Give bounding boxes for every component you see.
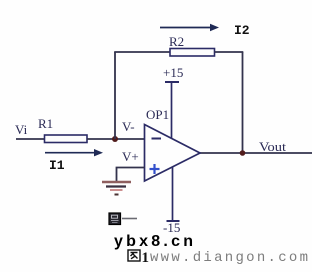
resistor R2 [170,49,215,57]
wire non-inverting input [117,168,145,182]
current arrow I2 [160,24,219,31]
svg-text:R2: R2 [169,34,184,49]
op-amp non-inverting input marker [150,164,160,174]
wire R1 to inverting input [87,138,145,140]
watermark figure-1 CJK glyph [128,250,140,261]
svg-text:I1: I1 [49,158,65,173]
svg-text:Vi: Vi [15,122,28,137]
current arrow I1 [45,149,103,156]
svg-text:+15: +15 [163,65,183,80]
svg-text:1: 1 [142,250,150,266]
power -15 supply bar [167,167,180,222]
ground [102,182,131,195]
svg-text:I2: I2 [234,23,250,38]
svg-text:R1: R1 [38,116,53,131]
svg-text:V-: V- [122,119,135,134]
wire feedback top horizontal [114,51,170,53]
op-amp OP1 [145,125,201,182]
resistor R1 [45,135,88,143]
svg-text:V+: V+ [122,149,139,164]
figure icon (boxed CJK glyph) [109,213,137,225]
op-amp inverting input marker [152,138,162,140]
wire output vertical [242,52,244,153]
node inverting-input junction [112,136,118,142]
svg-text:OP1: OP1 [146,107,169,122]
wire output [200,152,312,154]
svg-text:Vout: Vout [259,139,286,154]
wire R2 to output corner [215,51,244,53]
svg-text:www.diangon.com: www.diangon.com [150,250,308,266]
node output junction [240,150,246,156]
wire input [16,138,45,140]
wire feedback vertical [114,52,116,139]
power +15 supply bar [165,82,179,138]
